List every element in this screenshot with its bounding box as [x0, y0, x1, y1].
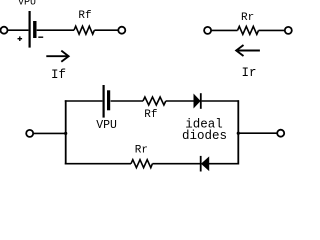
node terminal left (open circle)	[26, 130, 33, 137]
resistor Rr (bottom)	[131, 160, 152, 168]
wire	[8, 29, 29, 31]
svg-text:VPU: VPU	[96, 119, 117, 132]
svg-text:VPU: VPU	[18, 0, 36, 9]
resistor Rr (top-right)	[238, 26, 259, 34]
wire bottom branch left	[65, 163, 131, 165]
diode D1 (top branch, pointing right) triangle	[194, 94, 200, 108]
diode D1 cathode bar	[200, 93, 202, 109]
node terminal left (open circle)	[204, 27, 211, 34]
wire	[34, 132, 67, 134]
diode D2 (bottom branch, pointing left) cathode bar	[200, 156, 202, 172]
resistor Rf (bottom)	[143, 97, 166, 105]
node terminal right (open circle)	[277, 130, 284, 137]
junction left	[64, 132, 67, 135]
battery VPU (bottom) negative plate	[107, 90, 110, 110]
svg-text:Rr: Rr	[241, 12, 254, 24]
battery VPU (bottom) positive plate	[102, 85, 104, 118]
wire top branch left	[65, 100, 103, 102]
battery VPU (top-left) positive plate	[29, 11, 31, 48]
current arrow If	[46, 51, 68, 62]
wire	[202, 100, 239, 102]
wire	[259, 29, 285, 31]
wire right rail	[237, 100, 239, 164]
wire	[238, 132, 277, 134]
node terminal right (open circle)	[285, 27, 292, 34]
wire	[166, 100, 194, 102]
svg-text:If: If	[51, 68, 66, 82]
svg-text:Rf: Rf	[144, 109, 157, 121]
node terminal right (open circle)	[118, 27, 125, 34]
node terminal left (open circle)	[1, 27, 8, 34]
svg-text:Rf: Rf	[78, 10, 91, 22]
label -	[38, 36, 43, 38]
wire	[94, 29, 118, 31]
svg-text:diodes: diodes	[182, 129, 227, 143]
diode D2 triangle	[201, 157, 209, 171]
wire left rail	[65, 100, 67, 164]
current arrow Ir	[236, 45, 260, 56]
wire	[211, 29, 237, 31]
wire	[152, 163, 200, 165]
resistor Rf (top-left)	[74, 26, 94, 34]
battery VPU (top-left) negative plate	[33, 21, 36, 38]
wire	[209, 163, 239, 165]
wire	[37, 29, 74, 31]
junction right	[237, 132, 240, 135]
svg-text:Ir: Ir	[242, 66, 257, 80]
wire	[111, 100, 143, 102]
svg-text:Rr: Rr	[135, 144, 148, 156]
label +	[18, 36, 23, 41]
